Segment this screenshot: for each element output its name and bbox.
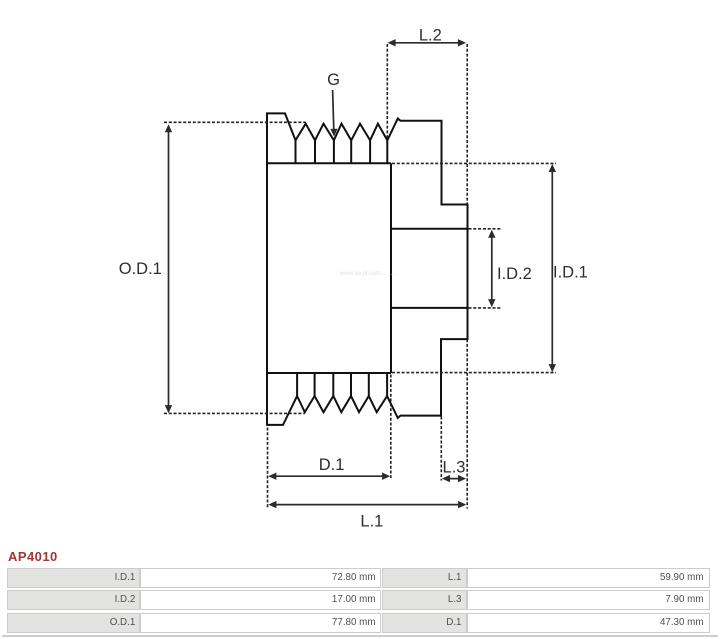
extension O.D. bottom — [164, 412, 305, 414]
dimension L.1 — [272, 504, 462, 506]
extension I.D.2 bottom — [469, 307, 503, 309]
svg-text:G: G — [327, 71, 340, 89]
pulley outer profile — [267, 113, 468, 425]
svg-text:I.D.1: I.D.1 — [553, 264, 588, 282]
bottom separator line — [2, 635, 718, 637]
extension I.D.1 top — [392, 162, 556, 164]
extension L.2 left — [386, 44, 388, 140]
svg-text:O.D.1: O.D.1 — [119, 260, 162, 278]
extension D.1 L.1 left — [267, 428, 269, 508]
svg-text:www.as-pl.com..........: www.as-pl.com.......... — [339, 271, 397, 277]
rib base line bottom — [267, 372, 391, 374]
dimension O.D.1 — [168, 128, 170, 409]
svg-text:L.2: L.2 — [419, 27, 442, 45]
svg-text:L.3: L.3 — [443, 458, 466, 476]
dimension D.1 — [272, 475, 386, 477]
dimension I.D.2 — [491, 234, 493, 304]
spec table row 3 — [7, 613, 140, 633]
groove verticals bottom — [297, 373, 387, 396]
extension I.D.2 top — [469, 228, 503, 230]
G leader arrow — [333, 90, 334, 130]
part number AP4010 — [8, 549, 58, 564]
dimension L.2 — [392, 42, 463, 44]
extension L.3 left — [440, 417, 442, 481]
spec table row 2 — [7, 590, 140, 610]
drum right edge — [390, 163, 392, 373]
groove verticals top — [296, 140, 388, 163]
rib base line top — [267, 162, 391, 164]
dimension L.3 — [446, 478, 462, 480]
spec table row 1 — [7, 568, 140, 588]
extension D.1 right — [390, 375, 392, 479]
svg-text:L.1: L.1 — [360, 512, 383, 530]
bore top line — [391, 228, 468, 230]
extension L.2 right upper — [466, 44, 468, 205]
extension O.D. top — [164, 121, 306, 123]
dimension I.D.1 — [551, 168, 553, 369]
extension L.1 right lower — [466, 339, 468, 508]
svg-text:D.1: D.1 — [319, 456, 345, 474]
svg-text:I.D.2: I.D.2 — [497, 265, 532, 283]
extension I.D.1 bottom — [392, 372, 556, 374]
bore bottom line — [391, 307, 468, 309]
